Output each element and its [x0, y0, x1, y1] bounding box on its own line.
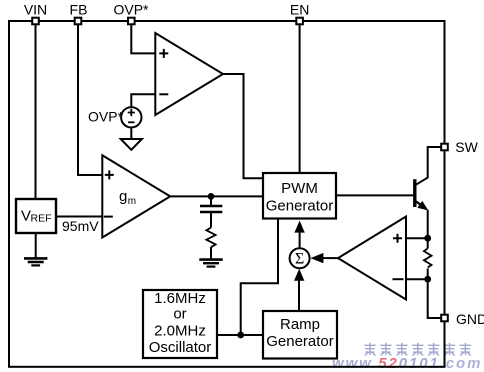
svg-text:Generator: Generator: [266, 333, 334, 350]
svg-text:Ramp: Ramp: [280, 316, 320, 333]
svg-text:g: g: [119, 188, 127, 205]
svg-text:FB: FB: [70, 2, 88, 18]
svg-text:PWM: PWM: [281, 180, 318, 197]
svg-text:REF: REF: [31, 213, 52, 225]
svg-text:2.0MHz: 2.0MHz: [154, 322, 206, 339]
svg-text:VIN: VIN: [24, 2, 47, 18]
svg-text:EN: EN: [290, 2, 309, 18]
svg-text:GND: GND: [456, 311, 484, 327]
svg-text:Generator: Generator: [266, 198, 334, 215]
svg-text:Σ: Σ: [295, 250, 304, 267]
svg-text:1.6MHz: 1.6MHz: [154, 290, 206, 307]
svg-text:m: m: [128, 196, 136, 207]
svg-text:Oscillator: Oscillator: [149, 339, 212, 356]
svg-text:OVP*: OVP*: [88, 108, 124, 124]
svg-text:V: V: [21, 208, 31, 225]
svg-text:SW: SW: [455, 139, 478, 155]
svg-text:www.520101.com: www.520101.com: [332, 355, 482, 372]
svg-text:or: or: [173, 306, 186, 323]
svg-text:OVP*: OVP*: [113, 2, 149, 18]
svg-text:95mV: 95mV: [62, 218, 99, 234]
